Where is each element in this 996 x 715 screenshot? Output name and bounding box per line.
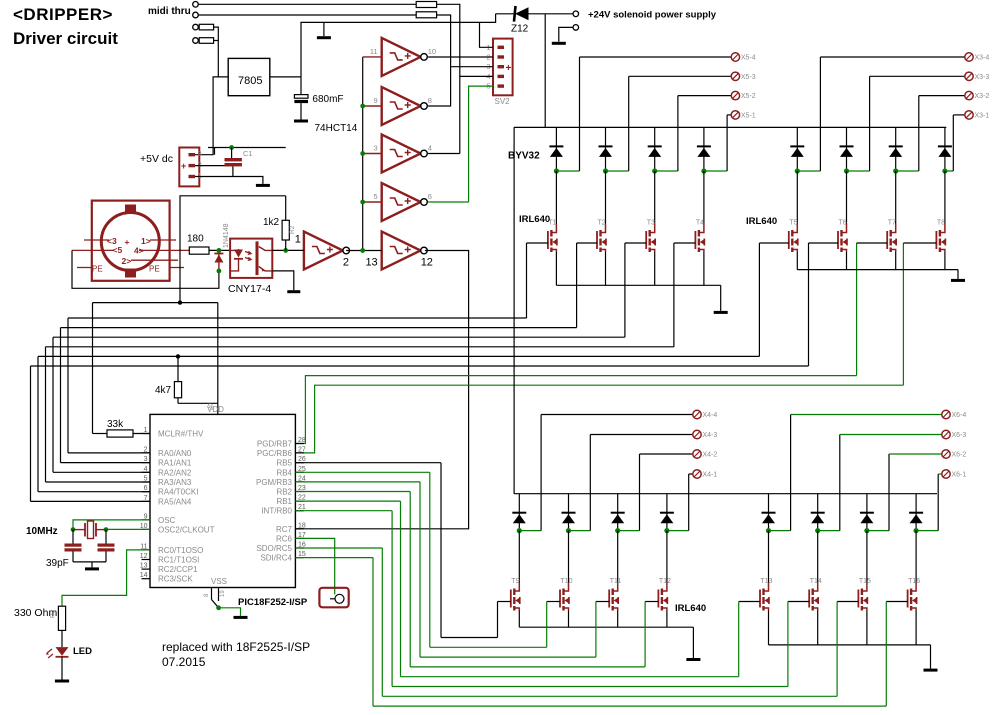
svg-text:<DRIPPER>: <DRIPPER> <box>13 5 113 24</box>
terminal circle X5-4 <box>731 53 739 61</box>
connector MIDI DIN-5 outline <box>92 201 170 281</box>
ground near 74HCT14 <box>323 22 325 36</box>
wire T11 gate lead <box>596 601 609 603</box>
testpoint symbol <box>319 588 348 608</box>
junction node T5 drain <box>795 168 800 173</box>
net gate T5 rise to gate <box>758 243 760 356</box>
svg-text:14: 14 <box>140 572 148 579</box>
svg-text:X3-2: X3-2 <box>975 93 990 100</box>
net gate T1 left vertical to PIC RA0 <box>67 318 69 453</box>
wire +5V down-right to VDD <box>217 303 219 415</box>
svg-text:4: 4 <box>144 466 148 473</box>
wire SV2 pin2 to inverter out 10 <box>428 56 493 58</box>
diode flyback above T9 <box>518 494 520 531</box>
pin 15 SDI/RC4 <box>295 557 304 559</box>
diode flyback above T6 <box>846 127 848 171</box>
junction crystal right <box>104 527 109 532</box>
terminal circle X3-3 <box>965 72 973 80</box>
resistor midi thru R (top) <box>416 2 436 8</box>
transistor T14 IRL640 <box>817 531 819 583</box>
svg-text:midi thru: midi thru <box>148 6 191 17</box>
svg-text:RB2: RB2 <box>276 488 292 497</box>
junction node at inverter chain <box>360 248 365 253</box>
wire junction to connector vertical X6-1 <box>916 530 938 532</box>
terminal circle X6-2 <box>942 450 950 458</box>
connector +5V pin 2 <box>189 164 196 167</box>
svg-text:+: + <box>181 161 186 171</box>
svg-text:5: 5 <box>144 476 148 483</box>
resistor midi in (lower small) <box>199 38 213 44</box>
wire T1 gate lead <box>527 242 548 244</box>
svg-text:VSS: VSS <box>211 577 227 586</box>
junction node T13 drain <box>766 528 771 533</box>
transistor T13 IRL640 <box>768 531 770 583</box>
transistor T6 IRL640 <box>846 171 848 224</box>
ground of source bus <box>692 627 694 658</box>
svg-text:74HCT14: 74HCT14 <box>315 123 358 134</box>
svg-text:PE: PE <box>92 265 103 274</box>
diode flyback above T1 <box>555 127 557 171</box>
wire T7 gate lead <box>857 242 888 244</box>
svg-text:RB5: RB5 <box>276 459 292 468</box>
pin 16 SDO/RC5 <box>295 547 304 549</box>
midi thru pin circle 4 <box>193 38 199 44</box>
wire inverter input bus vertical <box>362 57 364 251</box>
midi thru pin circle 2 <box>193 12 199 18</box>
wire connector horizontal X5-1 <box>727 114 731 116</box>
resistor 33k <box>93 433 108 435</box>
svg-text:T2: T2 <box>598 220 606 227</box>
net gate T15 rise to gate <box>836 602 838 697</box>
junction input bus at pin 9 <box>360 104 365 109</box>
svg-text:X5-1: X5-1 <box>741 112 756 119</box>
wire 7805 output up to top rail <box>301 14 496 77</box>
svg-text:20: 20 <box>209 403 215 410</box>
wire OSC1 to crystal <box>73 520 150 530</box>
wire T4 gate lead <box>674 242 696 244</box>
terminal circle X3-1 <box>965 111 973 119</box>
opto collector/emitter <box>259 247 273 271</box>
pin 28 PGD/RB7 <box>295 443 304 445</box>
wire T9 gate lead <box>498 601 511 603</box>
net gate T12 from PIC <box>295 491 410 493</box>
net gate T14 from PIC <box>295 510 392 512</box>
svg-text:OSC2/CLKOUT: OSC2/CLKOUT <box>158 525 215 534</box>
wire gate2 out to gate13 in <box>346 250 382 252</box>
wire SV2 pin1 to +5V line <box>480 22 494 47</box>
transistor T7 IRL640 <box>895 171 897 224</box>
resistor R3 330 Ohm <box>58 606 65 630</box>
wire connector horizontal X6-3 <box>840 434 942 436</box>
net gate T2 rise to gate <box>576 243 578 328</box>
zener diode Z12 <box>496 13 514 15</box>
inverter 74HCT14 gate 11->10 <box>363 56 382 58</box>
junction node T8 drain <box>942 168 947 173</box>
midi thru pin circle 1 <box>193 2 199 8</box>
wire T16 source to bus <box>915 611 917 645</box>
connector SV2 pin 3 <box>498 65 505 68</box>
svg-text:X6-1: X6-1 <box>952 472 967 479</box>
terminal circle X4-1 <box>693 470 701 478</box>
svg-text:RA4/T0CKI: RA4/T0CKI <box>158 488 198 497</box>
wire T6 source to bus <box>846 252 848 270</box>
svg-text:Z12: Z12 <box>511 24 529 35</box>
diode flyback above T8 <box>944 127 946 171</box>
net gate T13 rise to gate <box>738 602 740 677</box>
pin 26 RB5 <box>295 462 304 464</box>
wire junction to connector vertical X5-1 <box>704 170 727 172</box>
net gate T10 from PIC <box>295 471 429 473</box>
inverter 74HCT14 gate 3->4 <box>363 153 382 155</box>
capacitor 39pF left <box>72 530 74 544</box>
svg-text:+24V solenoid power supply: +24V solenoid power supply <box>588 10 717 21</box>
svg-text:T14: T14 <box>810 578 822 585</box>
wire RC6 to test point <box>295 538 334 594</box>
net gate T7 from PGD/RB7 (green) <box>295 376 856 444</box>
pin 14 RC3/SCK <box>142 578 151 580</box>
inverter 74HCT14 gate 1->2 <box>304 232 343 270</box>
svg-text:RC7: RC7 <box>276 525 293 534</box>
wire 7805 input from +5V connector pin3 <box>195 77 228 155</box>
wire T2 gate lead <box>577 242 597 244</box>
terminal circle X6-3 <box>942 430 950 438</box>
wire midi thru line 1 <box>198 3 416 5</box>
terminal circle X4-3 <box>693 430 701 438</box>
DIN pin tick lines <box>84 239 109 241</box>
wire junction to connector vertical X6-3 <box>818 530 840 532</box>
net gate T4 left vertical to PIC RA3 <box>45 347 47 482</box>
wire T5 source to bus <box>796 252 798 270</box>
junction input bus at pin 5 <box>360 200 365 205</box>
connector SV2 pin 5 <box>498 84 505 87</box>
pin 10 OSC2/CLKOUT <box>142 528 151 530</box>
LED D1 <box>61 630 63 647</box>
svg-text:1: 1 <box>198 171 202 180</box>
pin 21 INT/RB0 <box>295 510 304 512</box>
wire T15 gate lead <box>837 601 858 603</box>
transistor T8 IRL640 <box>944 171 946 224</box>
wire +24V top rail <box>514 126 946 128</box>
capacitor C1 <box>231 148 233 159</box>
svg-text:RB4: RB4 <box>276 468 292 477</box>
wire opto emitter to ground <box>272 271 294 290</box>
wire source bus <box>769 644 931 646</box>
net gate T13 from PIC <box>295 500 400 502</box>
svg-text:RC6: RC6 <box>276 534 293 543</box>
wire connector horizontal X4-3 <box>590 434 693 436</box>
net gate T6 horizontal <box>31 365 809 367</box>
net gate T2 horizontal <box>61 327 577 329</box>
wire +5V pin2 stub <box>195 165 233 167</box>
svg-text:10: 10 <box>428 47 436 56</box>
terminal circle X3-2 <box>965 91 973 99</box>
pin 3 RA1/AN1 <box>142 462 151 464</box>
diode flyback above T4 <box>703 127 705 171</box>
terminal circle X6-4 <box>942 410 950 418</box>
junction node T3 drain <box>652 168 657 173</box>
wire T13 source to bus <box>768 611 770 645</box>
wire inverter out 6 (green) <box>428 201 469 203</box>
pin 22 RB1 <box>295 500 304 502</box>
wire junction to connector vertical X3-1 <box>945 170 953 172</box>
connector +5V pin 1 <box>189 175 196 178</box>
svg-text:X4-4: X4-4 <box>703 412 718 419</box>
DIN top notch <box>125 205 136 215</box>
junction node T11 drain <box>615 528 620 533</box>
junction node T14 drain <box>815 528 820 533</box>
wire junction to connector vertical X6-2 <box>867 530 889 532</box>
svg-text:3: 3 <box>144 456 148 463</box>
wire SV2 pin3 <box>451 66 493 68</box>
svg-text:X3-3: X3-3 <box>975 74 990 81</box>
svg-text:RC1/T1OSI: RC1/T1OSI <box>158 556 199 565</box>
capacitor 680mF <box>300 77 302 95</box>
svg-text:T6: T6 <box>839 220 847 227</box>
wire connector horizontal X5-4 <box>580 56 732 58</box>
net gate T4 rise to gate <box>673 243 675 347</box>
svg-text:X6-2: X6-2 <box>952 452 967 459</box>
wire T5 gate lead <box>759 242 788 244</box>
terminal circle +24V <box>573 11 579 17</box>
svg-text:4k7: 4k7 <box>155 385 172 396</box>
wire +5V pin1 to ground <box>195 177 263 184</box>
junction input bus at pin 3 <box>360 151 365 156</box>
junction node T9 drain <box>517 528 522 533</box>
wire +5V down-left to 33k <box>92 303 94 434</box>
svg-text:2: 2 <box>343 257 349 269</box>
junction node T12 drain <box>664 528 669 533</box>
svg-text:18: 18 <box>298 522 306 529</box>
junction node T1 drain <box>554 168 559 173</box>
junction node T7 drain <box>893 168 898 173</box>
wire +5V net horizontal <box>208 147 286 149</box>
svg-text:T11: T11 <box>610 578 622 585</box>
svg-text:X4-1: X4-1 <box>703 472 718 479</box>
regulator U 7805 box <box>228 58 270 95</box>
svg-text:SDO/RC5: SDO/RC5 <box>256 544 292 553</box>
wire T16 gate lead <box>886 601 907 603</box>
terminal circle supply ground <box>573 25 579 31</box>
pin 7 RA5/AN4 <box>142 500 151 502</box>
wire RC0 to 330 Ohm <box>62 550 150 606</box>
wire T1 source to bus <box>555 252 557 285</box>
wire T15 source to bus <box>866 611 868 645</box>
net gate T15 from PIC <box>295 547 382 549</box>
diode flyback above T14 <box>817 494 819 531</box>
svg-text:RA0/AN0: RA0/AN0 <box>158 449 192 458</box>
transistor T11 IRL640 <box>617 531 619 583</box>
svg-text:680mF: 680mF <box>312 94 343 105</box>
svg-text:1N4148: 1N4148 <box>223 223 230 248</box>
diode flyback above T12 <box>666 494 668 531</box>
svg-text:12: 12 <box>421 257 433 269</box>
net gate T5 left vertical to PIC RA4 <box>37 356 39 491</box>
pin 17 RC6 <box>295 537 304 539</box>
pin 24 PGM/RB3 <box>295 481 304 483</box>
junction crystal left <box>71 527 76 532</box>
wire +24V down to drain rail <box>544 14 546 128</box>
wire T3 source to bus <box>654 252 656 285</box>
junction node T15 drain <box>864 528 869 533</box>
svg-text:19: 19 <box>220 590 226 597</box>
wire inverter 12 output to RC7 net <box>295 251 468 529</box>
net gate T16 rise to gate <box>885 602 887 707</box>
connector SV2 box <box>493 39 513 96</box>
net gate T11 rise to gate <box>595 602 597 658</box>
wire T8 source to bus <box>944 252 946 270</box>
wire small resistors to 7805 input <box>214 27 219 77</box>
svg-text:13: 13 <box>365 257 377 269</box>
svg-text:IRL640: IRL640 <box>746 216 777 227</box>
diode flyback above T15 <box>866 494 868 531</box>
diode flyback above T10 <box>568 494 570 531</box>
resistor 180 <box>189 247 209 254</box>
svg-text:7805: 7805 <box>238 75 262 87</box>
ground of source bus <box>930 645 932 669</box>
wire connector horizontal X5-2 <box>678 95 731 97</box>
wire junction to connector vertical X3-2 <box>896 170 919 172</box>
wire connector horizontal X4-4 <box>541 414 693 416</box>
diode flyback above T16 <box>915 494 917 531</box>
pin 2 RA0/AN0 <box>142 452 151 454</box>
svg-text:1: 1 <box>295 234 301 246</box>
wire SV2 pin5 to inverter out 6 <box>469 86 493 202</box>
svg-text:T12: T12 <box>659 578 671 585</box>
junction node T6 drain <box>844 168 849 173</box>
terminal circle X5-1 <box>731 111 739 119</box>
net gate T5 horizontal <box>38 355 759 357</box>
inverter 74HCT14 gate 5->6 <box>363 201 382 203</box>
svg-text:RA1/AN1: RA1/AN1 <box>158 459 192 468</box>
svg-text:MCLR#/THV: MCLR#/THV <box>158 430 204 439</box>
svg-text:replaced with 18F2525-I/SP: replaced with 18F2525-I/SP <box>162 640 310 654</box>
net gate T16 from PIC <box>295 557 373 559</box>
svg-text:RA2/AN2: RA2/AN2 <box>158 468 192 477</box>
pin 9 OSC <box>142 519 151 521</box>
wire T13 gate lead <box>739 601 760 603</box>
wire connector horizontal X5-3 <box>629 75 732 77</box>
svg-text:R3: R3 <box>50 609 57 618</box>
wire source bus <box>556 284 720 286</box>
transistor T4 IRL640 <box>703 171 705 224</box>
opto emission arrows <box>245 251 251 260</box>
wire T9 source to bus <box>518 611 520 628</box>
net gate T3 rise to gate <box>624 243 626 337</box>
diode flyback above T7 <box>895 127 897 171</box>
wire T11 source to bus <box>617 611 619 628</box>
net gate T12 rise to gate <box>644 602 646 667</box>
connector SV2 pin 1 <box>498 46 505 49</box>
transistor T16 IRL640 <box>915 531 917 583</box>
wire junction to connector vertical X4-3 <box>569 530 591 532</box>
svg-text:1k2: 1k2 <box>263 217 280 228</box>
svg-text:1: 1 <box>144 427 148 434</box>
terminal circle X5-2 <box>731 91 739 99</box>
wire connector horizontal X3-2 <box>919 95 965 97</box>
junction capacitor C1 <box>229 145 234 150</box>
wire junction to connector vertical X4-1 <box>667 530 689 532</box>
connector MIDI DIN-5 circle <box>101 213 159 271</box>
wire DIN pin5 return to opto cathode <box>72 250 219 288</box>
pin 27 PGC/RB6 <box>295 452 304 454</box>
transistor T9 IRL640 <box>518 531 520 583</box>
junction opto anode <box>217 248 222 253</box>
wire +5V branch line <box>180 196 286 303</box>
terminal circle X6-1 <box>942 470 950 478</box>
svg-text:T10: T10 <box>561 578 573 585</box>
svg-text:PE: PE <box>149 265 160 274</box>
ground of source bus <box>957 270 959 279</box>
svg-text:PGD/RB7: PGD/RB7 <box>257 440 293 449</box>
svg-text:6: 6 <box>428 192 432 201</box>
wire LED to ground <box>61 657 63 680</box>
svg-text:+: + <box>506 63 512 74</box>
svg-text:13: 13 <box>140 563 148 570</box>
wire midi thru line 2 <box>198 14 416 16</box>
svg-text:07.2015: 07.2015 <box>162 655 206 669</box>
svg-text:T7: T7 <box>888 220 896 227</box>
diode 1N4148 <box>218 250 220 271</box>
net gate T6 left vertical to PIC RA5 <box>30 366 32 501</box>
svg-text:C1: C1 <box>243 149 253 158</box>
svg-text:28: 28 <box>298 437 306 444</box>
svg-text:8: 8 <box>428 96 432 105</box>
connector SV2 pin 4 <box>498 75 505 78</box>
ground of source bus <box>720 285 722 311</box>
junction node T4 drain <box>701 168 706 173</box>
resistor midi thru R (second) <box>416 12 436 18</box>
pin 6 RA4/T0CKI <box>142 491 151 493</box>
wire inverter out 8 to vertical <box>428 105 451 107</box>
svg-text:3: 3 <box>374 144 378 153</box>
svg-text:IRL640: IRL640 <box>675 603 706 614</box>
transistor T12 IRL640 <box>666 531 668 583</box>
svg-text:12: 12 <box>140 553 148 560</box>
diode flyback above T5 <box>796 127 798 171</box>
junction node T16 drain <box>914 528 919 533</box>
net gate T3 horizontal <box>53 336 625 338</box>
wire T8 gate lead <box>903 242 936 244</box>
net gate T4 horizontal <box>46 346 674 348</box>
svg-text:9: 9 <box>374 96 378 105</box>
pin 4 RA2/AN2 <box>142 471 151 473</box>
svg-text:X5-4: X5-4 <box>741 55 756 62</box>
midi thru pin circle 3 <box>193 24 199 30</box>
DIN bottom notch <box>125 269 136 278</box>
connector +5V pin 3 <box>189 153 196 156</box>
net gate T9 from PIC <box>295 462 441 464</box>
net gate T11 from PIC <box>295 481 420 483</box>
svg-text:2: 2 <box>144 446 148 453</box>
junction +5V vertical <box>178 300 182 304</box>
svg-text:LED: LED <box>73 646 92 657</box>
svg-text:4: 4 <box>428 144 432 153</box>
pin 25 RB4 <box>295 471 304 473</box>
svg-text:RB1: RB1 <box>276 497 292 506</box>
net gate T8 from PGC/RB6 (green) <box>295 385 903 453</box>
wire junction to connector vertical X6-4 <box>769 530 791 532</box>
wire inverter out 4 to vertical <box>428 153 460 155</box>
optocoupler CNY17-4 box <box>230 239 272 278</box>
wire connector horizontal X3-4 <box>820 56 964 58</box>
svg-text:BYV32: BYV32 <box>508 151 540 162</box>
wire junction to connector vertical X5-3 <box>606 170 629 172</box>
resistor 1k2 <box>285 240 287 250</box>
diode flyback above T2 <box>605 127 607 171</box>
net gate T2 left vertical to PIC RA1 <box>60 328 62 463</box>
ground below 680mF <box>294 120 308 123</box>
svg-text:T16: T16 <box>908 578 920 585</box>
